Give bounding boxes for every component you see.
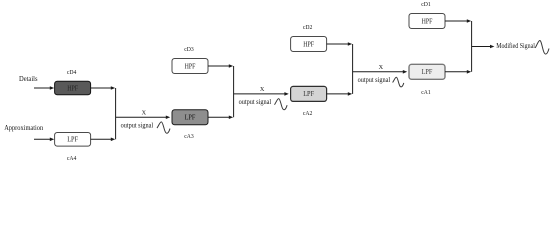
svg-text:cA3: cA3 <box>184 133 194 140</box>
svg-text:LPF: LPF <box>422 69 433 76</box>
svg-text:X: X <box>142 110 147 117</box>
svg-text:Modified Signal: Modified Signal <box>496 41 535 50</box>
svg-text:cA4: cA4 <box>67 155 77 162</box>
svg-text:LPF: LPF <box>185 115 196 122</box>
svg-text:Approximation: Approximation <box>4 123 43 132</box>
svg-text:HPF: HPF <box>303 41 314 48</box>
svg-text:LPF: LPF <box>303 91 314 98</box>
svg-text:output signal: output signal <box>239 98 272 106</box>
svg-text:cD4: cD4 <box>67 69 77 76</box>
svg-text:cD3: cD3 <box>184 46 194 53</box>
svg-text:cA2: cA2 <box>303 110 313 117</box>
svg-text:X: X <box>260 86 265 93</box>
svg-text:Details: Details <box>19 74 38 83</box>
svg-text:LPF: LPF <box>67 137 78 144</box>
svg-text:X: X <box>379 64 384 71</box>
svg-text:HPF: HPF <box>67 85 78 92</box>
svg-text:cD2: cD2 <box>303 24 313 31</box>
svg-text:output signal: output signal <box>358 76 391 84</box>
svg-text:cA1: cA1 <box>421 89 431 96</box>
svg-text:HPF: HPF <box>422 18 433 25</box>
svg-text:cD1: cD1 <box>421 1 431 8</box>
svg-text:output signal: output signal <box>121 121 154 129</box>
svg-text:HPF: HPF <box>185 63 196 70</box>
